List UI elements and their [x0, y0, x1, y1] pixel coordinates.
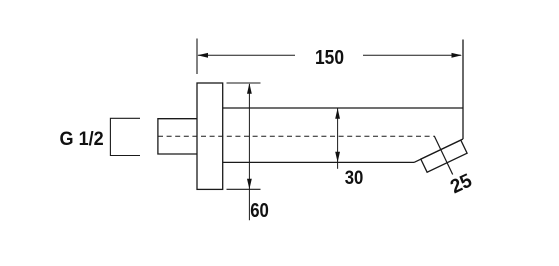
60 dimension arrow down — [247, 179, 252, 190]
150 dimension arrow left — [197, 53, 208, 58]
threaded inlet pipe G 1/2 — [158, 119, 197, 154]
spout right end edge / 150 extension line — [462, 40, 464, 140]
spout body top edge — [223, 107, 463, 109]
60 dimension top tick — [227, 82, 261, 84]
svg-text:150: 150 — [315, 47, 344, 69]
aerator outline — [421, 140, 467, 172]
30 dimension arrow down — [335, 152, 340, 163]
wall flange — [197, 83, 223, 189]
svg-text:30: 30 — [345, 167, 364, 189]
svg-text:G 1/2: G 1/2 — [60, 129, 104, 150]
150 dimension left extension line — [196, 39, 198, 75]
aerator axis leader — [434, 136, 452, 174]
svg-text:25: 25 — [447, 169, 475, 198]
60 dimension line — [248, 84, 250, 220]
spout body bottom edge — [223, 161, 414, 163]
30 dimension line — [337, 109, 339, 169]
centerline — [158, 135, 435, 137]
chamfered outlet face — [414, 139, 463, 162]
svg-text:60: 60 — [250, 200, 269, 222]
150 dimension arrow right — [452, 53, 463, 58]
30 dimension arrow up — [335, 108, 340, 119]
G 1/2 bracket — [110, 118, 140, 155]
60 dimension bottom tick — [227, 188, 261, 190]
150 dimension line — [198, 54, 461, 56]
60 dimension arrow up — [247, 83, 252, 94]
